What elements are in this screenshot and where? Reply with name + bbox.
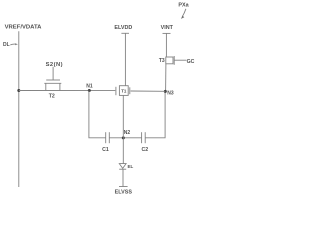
wire C2 to right column corner <box>145 91 165 137</box>
wire DL vertical data line <box>18 31 20 187</box>
svg-text:C2: C2 <box>141 147 148 153</box>
svg-text:S2(N): S2(N) <box>46 62 63 68</box>
svg-text:VINT: VINT <box>161 25 174 31</box>
power ELVSS terminal bar <box>119 186 128 188</box>
wire N2 down to EL anode <box>122 138 124 164</box>
junction DL/main-wire dot <box>17 89 20 92</box>
transistor T1 <box>116 86 130 96</box>
wire VINT to T3 top <box>165 33 167 57</box>
svg-text:N3: N3 <box>167 90 174 96</box>
svg-text:PXa: PXa <box>178 2 189 8</box>
wire T1 bottom to N2 <box>122 95 124 137</box>
capacitor C2 <box>142 132 146 143</box>
svg-text:N2: N2 <box>124 130 131 136</box>
svg-text:C1: C1 <box>102 147 109 153</box>
wire DL leader arrow <box>10 43 18 45</box>
wire ELVDD to T1 top <box>124 33 126 85</box>
wire right column N3 up to T3 <box>165 64 167 92</box>
junction N1 dot <box>88 89 91 92</box>
junction N2 dot <box>122 136 125 139</box>
svg-text:N1: N1 <box>86 83 93 89</box>
wire main horizontal from DL to T1 gate <box>19 90 116 92</box>
power VINT terminal bar <box>163 32 171 34</box>
svg-text:ELVSS: ELVSS <box>115 189 133 195</box>
svg-text:DL: DL <box>3 42 10 48</box>
wire T1 drain to N3 <box>131 90 166 92</box>
diode EL (OLED) <box>119 164 126 170</box>
svg-text:T3: T3 <box>159 58 165 64</box>
svg-text:EL: EL <box>128 164 134 169</box>
svg-text:T2: T2 <box>49 93 55 99</box>
wire PXa leader arrow <box>181 9 186 19</box>
transistor T3 <box>166 56 187 65</box>
power ELVDD terminal bar <box>121 32 129 34</box>
transistor T2 <box>44 67 61 91</box>
svg-text:ELVDD: ELVDD <box>114 25 132 31</box>
wire N1 to C1 (down then right) <box>89 91 106 138</box>
svg-text:T1: T1 <box>121 88 127 93</box>
svg-text:VREF/VDATA: VREF/VDATA <box>5 24 43 30</box>
svg-text:GC: GC <box>187 59 195 65</box>
wire C1 to N2 to C2 rail <box>109 137 141 139</box>
wire EL cathode to ELVSS <box>122 169 124 186</box>
junction N3 dot <box>164 90 167 93</box>
capacitor C1 <box>106 132 110 143</box>
